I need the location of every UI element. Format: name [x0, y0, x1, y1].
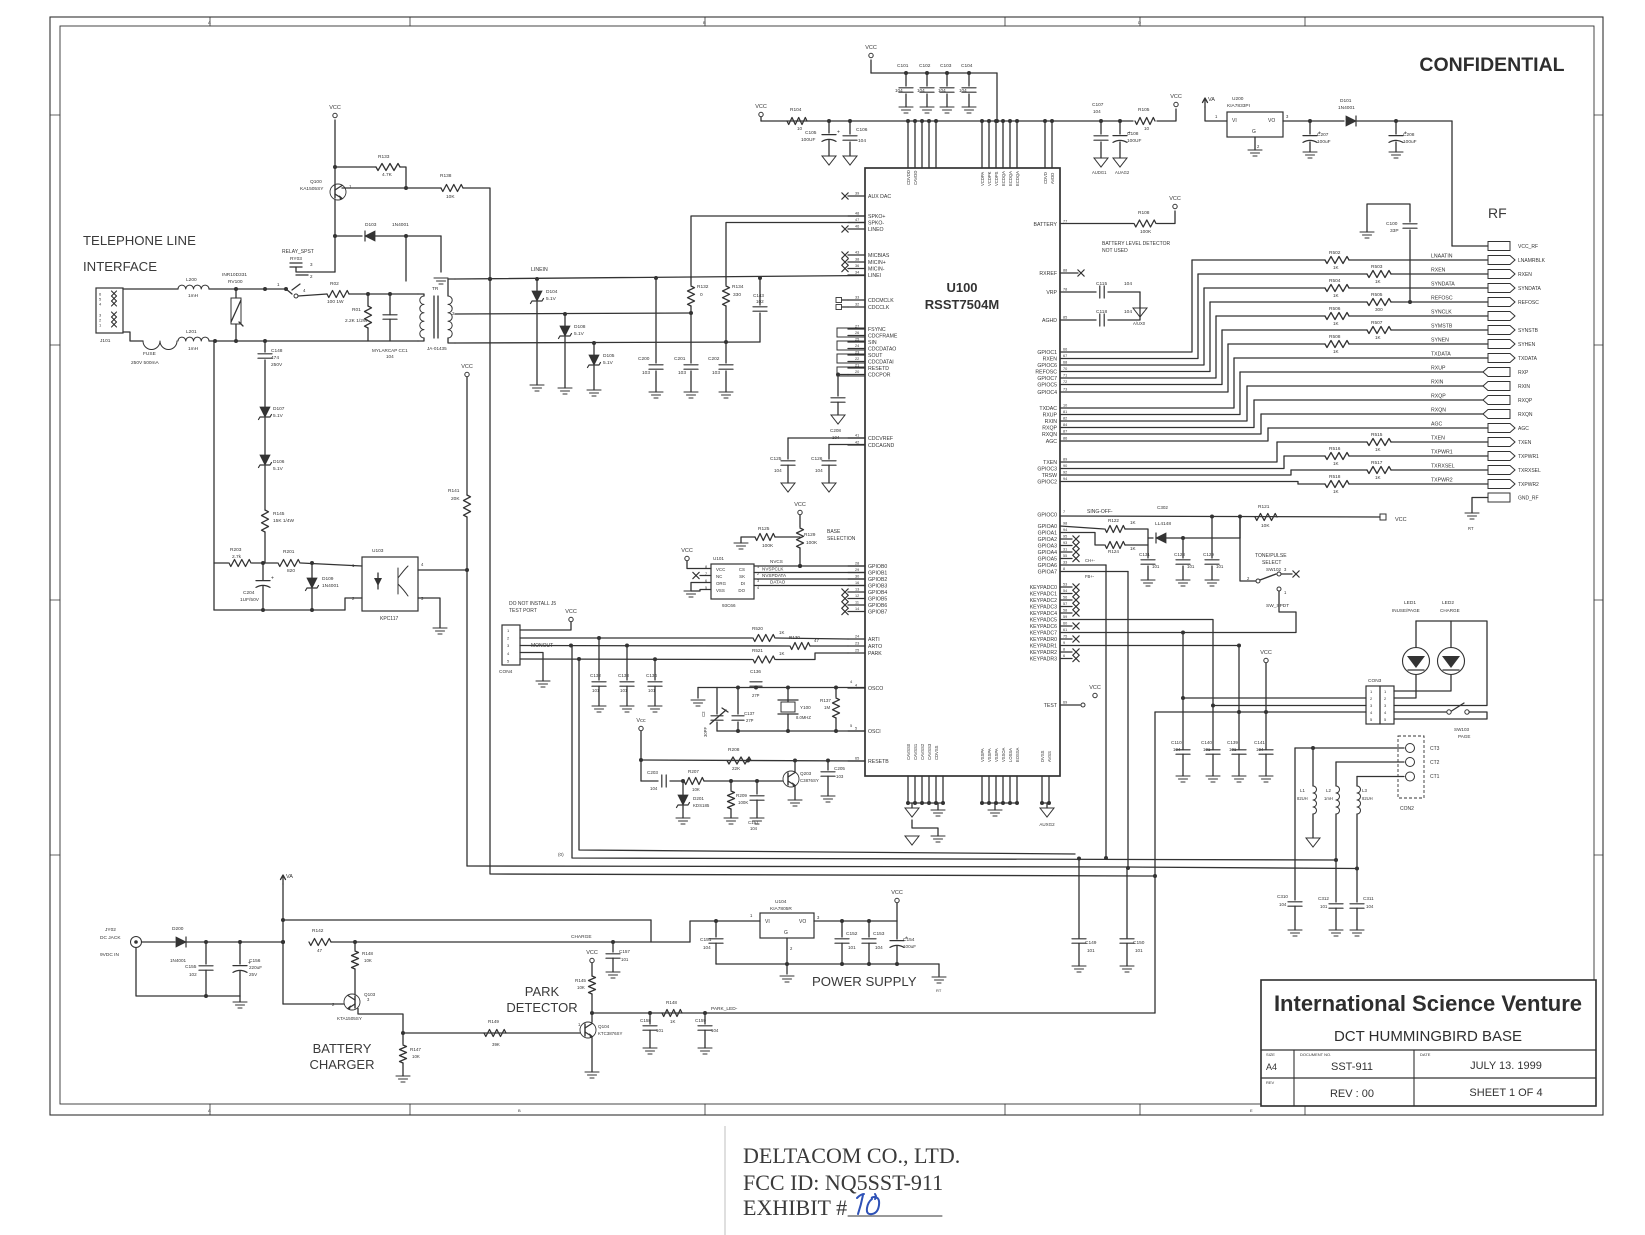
- wire C134 column: [654, 659, 656, 680]
- connector CON4 5 pin: [502, 625, 520, 665]
- wire SING-OFF- net GPIOC0: [1060, 516, 1380, 517]
- capacitor C208 104 left: [831, 397, 845, 399]
- wire IC pin to RF row SYNDATA: [1060, 288, 1204, 365]
- svg-text:U103: U103: [372, 548, 384, 554]
- svg-text:C311: C311: [1363, 896, 1374, 901]
- RF tag AGC: [1488, 424, 1515, 433]
- svg-text:R145: R145: [575, 978, 586, 983]
- svg-text:GPIOC6: GPIOC6: [1037, 363, 1057, 369]
- resistor R122 1K: [1105, 526, 1125, 533]
- junction C149 on bus A: [1078, 859, 1080, 939]
- svg-text:10K: 10K: [692, 787, 700, 792]
- junction C100 column on REFOSC row: [1408, 300, 1412, 304]
- wire IC pin to RF row TXPWR2: [1060, 482, 1298, 485]
- svg-text:KEYPADC2: KEYPADC2: [1030, 598, 1057, 604]
- optocoupler U103 KPC117: [362, 557, 418, 611]
- varistor RV100 INR10D331: [235, 289, 237, 298]
- svg-text:1N4001: 1N4001: [1338, 105, 1355, 111]
- svg-text:VCC: VCC: [1089, 685, 1101, 691]
- wire R105 to VCC right: [1157, 109, 1176, 121]
- ground hollow below C208 left: [831, 415, 845, 424]
- resistor R134 330: [725, 278, 727, 285]
- capacitor C200 103: [655, 278, 657, 363]
- capacitor C132 101: [592, 681, 606, 683]
- svg-text:R02: R02: [330, 281, 339, 287]
- svg-text:47: 47: [317, 948, 323, 953]
- svg-text:27P: 27P: [752, 693, 760, 698]
- wire CT1 row: [1357, 776, 1404, 778]
- svg-text:D101: D101: [1340, 98, 1352, 104]
- svg-text:15K 1/4W: 15K 1/4W: [273, 518, 295, 524]
- svg-text:SW_SPDT: SW_SPDT: [1266, 603, 1289, 609]
- svg-text:C129: C129: [1203, 552, 1214, 557]
- svg-text:RXREF: RXREF: [1039, 271, 1057, 277]
- svg-text:1K: 1K: [1333, 461, 1340, 466]
- svg-text:26: 26: [855, 331, 859, 335]
- svg-text:RXQP: RXQP: [1042, 426, 1057, 432]
- resistor R01 2.2K 1/2W: [367, 294, 369, 306]
- svg-text:101: 101: [1152, 564, 1160, 569]
- wire R125 left to ground: [741, 537, 755, 543]
- wire bus line C: [490, 279, 1155, 876]
- svg-text:C153: C153: [873, 931, 885, 937]
- svg-text:1mH: 1mH: [1324, 796, 1333, 801]
- ground hollow below C126: [822, 483, 836, 492]
- wire CT2 row: [1336, 761, 1404, 763]
- svg-text:SIN: SIN: [868, 340, 877, 346]
- svg-text:46: 46: [855, 225, 859, 229]
- svg-text:LINEI: LINEI: [868, 273, 881, 279]
- svg-text:R518: R518: [1329, 474, 1341, 480]
- svg-text:104: 104: [750, 826, 758, 831]
- svg-text:92: 92: [1063, 471, 1067, 475]
- svg-text:1mH: 1mH: [188, 293, 199, 299]
- svg-text:AUXG2: AUXG2: [1039, 822, 1055, 827]
- ground below C139: [1232, 775, 1246, 777]
- svg-text:1K: 1K: [1333, 293, 1340, 298]
- svg-text:R504: R504: [1329, 278, 1341, 284]
- svg-text:CAVSS2: CAVSS2: [920, 743, 925, 760]
- ground below GND_RF: [1465, 512, 1479, 514]
- wire KEYPADR3: [1060, 658, 1072, 660]
- resistor R521 1K: [753, 656, 775, 663]
- svg-text:D201: D201: [693, 796, 704, 801]
- svg-text:30: 30: [855, 575, 859, 579]
- svg-text:KIA7833PI: KIA7833PI: [1227, 103, 1250, 109]
- resistor R141 20K: [464, 495, 471, 517]
- svg-text:8.0MHZ: 8.0MHZ: [796, 715, 811, 720]
- svg-text:101: 101: [648, 688, 656, 693]
- terminal CT2: [1406, 758, 1415, 767]
- svg-text:1K: 1K: [1375, 279, 1382, 284]
- no-connect KEYPADR2: [1060, 651, 1072, 653]
- svg-text:CDCAGND: CDCAGND: [868, 443, 894, 449]
- svg-text:GPIOC0: GPIOC0: [1037, 513, 1057, 519]
- wire R521 to PARK pin: [776, 653, 848, 660]
- svg-text:43: 43: [855, 251, 859, 255]
- svg-text:FSYNC: FSYNC: [868, 327, 886, 333]
- svg-text:5.1V: 5.1V: [546, 296, 557, 302]
- ground below C311: [1350, 929, 1364, 931]
- svg-text:C157: C157: [619, 949, 630, 954]
- wire opto pin3 to ground: [418, 598, 440, 628]
- wire CON3 pin2 row left: [1183, 697, 1366, 699]
- ground below U104 rail: [786, 964, 788, 974]
- wire CDCAGND to C126: [829, 444, 865, 446]
- ground below C157b: [750, 817, 764, 819]
- svg-text:KTA1505SY: KTA1505SY: [337, 1016, 362, 1021]
- ground AUDG1 hollow below left group: [911, 803, 913, 808]
- capacitor C136 27P: [750, 681, 762, 683]
- title block outer box: [1261, 980, 1596, 1106]
- svg-text:58: 58: [1063, 609, 1067, 613]
- svg-text:CT1: CT1: [1430, 774, 1440, 780]
- svg-text:VO: VO: [1268, 118, 1275, 124]
- svg-text:International Science Venture: International Science Venture: [1274, 991, 1582, 1016]
- svg-text:SHEET 1 OF 4: SHEET 1 OF 4: [1469, 1087, 1542, 1099]
- capacitor C129 101: [1211, 517, 1213, 559]
- svg-text:TXRXSEL: TXRXSEL: [1431, 464, 1455, 470]
- resistor R129 100K: [797, 528, 804, 548]
- svg-text:R515: R515: [1371, 432, 1383, 438]
- wire R02 to transformer: [349, 293, 418, 295]
- svg-text:89: 89: [1063, 458, 1067, 462]
- zener diode D106 5.1V: [260, 455, 270, 465]
- svg-text:LED1: LED1: [1404, 600, 1416, 606]
- svg-text:93: 93: [1063, 541, 1067, 545]
- svg-text:20K: 20K: [451, 496, 460, 502]
- svg-text:KEYPADR1: KEYPADR1: [1030, 644, 1057, 650]
- RF tag LNAMRBLK: [1488, 256, 1515, 265]
- svg-text:C159: C159: [695, 1018, 706, 1023]
- svg-text:DETECTOR: DETECTOR: [506, 1000, 577, 1015]
- svg-text:R517: R517: [1371, 460, 1383, 466]
- svg-text:REFOSC: REFOSC: [1035, 370, 1057, 376]
- resistor R505 300: [1367, 299, 1391, 306]
- capacitor C154 100uF polar: [896, 921, 898, 939]
- RF tag RXQN: [1483, 410, 1510, 419]
- svg-text:MYLARCAP CC1: MYLARCAP CC1: [372, 348, 408, 353]
- svg-text:78: 78: [1063, 288, 1067, 292]
- svg-text:C152: C152: [846, 931, 858, 937]
- svg-text:101: 101: [621, 957, 629, 962]
- ground below C205: [821, 795, 835, 797]
- wire L2 down to bus A: [1335, 814, 1337, 902]
- svg-text:1K: 1K: [1130, 546, 1137, 551]
- svg-text:REV : 00: REV : 00: [1330, 1088, 1374, 1100]
- wire VCC column down to bus: [466, 517, 468, 570]
- svg-text:SING-OFF-: SING-OFF-: [1087, 509, 1113, 515]
- ground below C104: [962, 106, 976, 108]
- svg-text:R129: R129: [804, 532, 816, 538]
- wire VCC to R145: [591, 963, 593, 976]
- svg-text:CAVSS3: CAVSS3: [927, 743, 932, 760]
- svg-text:CS: CS: [739, 567, 745, 572]
- wire LED top rail to CON3 pin3 row: [1394, 621, 1487, 706]
- wire BATTERY pin to R108: [1060, 223, 1133, 225]
- crystal Y100 8.0MHZ: [787, 688, 789, 703]
- svg-text:SOUT: SOUT: [868, 353, 883, 359]
- svg-text:104: 104: [1173, 747, 1181, 752]
- wire CDCPOR column to C208: [838, 375, 848, 397]
- svg-text:BATTERY: BATTERY: [1034, 222, 1058, 228]
- resistor R105 10: [1135, 118, 1155, 125]
- wire relay to R02: [298, 294, 327, 296]
- wire charge row R142: [309, 939, 331, 946]
- svg-text:TONE/PULSE: TONE/PULSE: [1255, 553, 1287, 559]
- wire C203 to R207: [670, 780, 683, 782]
- svg-text:73: 73: [1063, 388, 1067, 392]
- svg-text:R142: R142: [312, 928, 324, 934]
- svg-text:104: 104: [895, 88, 903, 93]
- regulator U200 KIA7833PI: [1227, 112, 1283, 137]
- svg-text:820: 820: [287, 568, 295, 574]
- wire vertical CON3pin4 column to PARK_LED row: [1154, 712, 1156, 1013]
- capacitor C133 101: [620, 681, 634, 683]
- svg-text:SYNCLK: SYNCLK: [1431, 310, 1452, 316]
- junction C150 on bus B: [1126, 868, 1128, 938]
- svg-text:TXDATA: TXDATA: [1431, 352, 1451, 358]
- svg-text:1M: 1M: [824, 705, 830, 710]
- svg-text:NVSPDATA: NVSPDATA: [762, 573, 787, 578]
- svg-text:R148: R148: [666, 1000, 677, 1005]
- svg-text:R148: R148: [362, 951, 373, 956]
- svg-text:1K: 1K: [1375, 335, 1382, 340]
- svg-text:GPIOA7: GPIOA7: [1038, 570, 1057, 576]
- svg-text:85: 85: [1063, 316, 1067, 320]
- ground below C310: [1288, 929, 1302, 931]
- svg-text:Vcc: Vcc: [636, 718, 645, 724]
- wire diode to C128 node: [1166, 537, 1240, 539]
- svg-text:CAVDD: CAVDD: [913, 171, 918, 185]
- inductor L3 82UH: [1356, 777, 1358, 787]
- svg-text:C108: C108: [1127, 131, 1139, 137]
- ground below C100 left leg: [1360, 231, 1374, 233]
- ground hollow below C107 AUDG1: [1094, 158, 1108, 167]
- svg-text:RXIN: RXIN: [1045, 419, 1058, 425]
- svg-text:+: +: [271, 576, 274, 582]
- resistor R508 1K: [1325, 341, 1349, 348]
- wire LED1 top to rail: [1415, 621, 1417, 648]
- ground below R147: [396, 1075, 410, 1077]
- wire GPIOA1 row to R124: [1060, 533, 1104, 546]
- svg-text:VCC: VCC: [716, 567, 725, 572]
- capacitor C158 101: [649, 1013, 651, 1024]
- svg-text:25V: 25V: [249, 972, 258, 977]
- svg-text:ARTO: ARTO: [868, 644, 882, 650]
- svg-text:NVCS: NVCS: [770, 559, 783, 564]
- svg-text:R122: R122: [1108, 518, 1119, 523]
- svg-text:R507: R507: [1371, 320, 1383, 326]
- resistor R145 15K 1/4W: [262, 510, 269, 532]
- svg-text:DO: DO: [738, 588, 745, 593]
- svg-text:C202: C202: [708, 356, 720, 362]
- resistor R203 2.7k: [214, 562, 228, 564]
- connector CON2 dashed outline: [1398, 736, 1424, 798]
- svg-text:RXEN: RXEN: [1518, 272, 1532, 278]
- RF tag TXEN: [1488, 438, 1515, 447]
- svg-text:C118: C118: [1096, 309, 1107, 315]
- wire Q103 base from VA column: [283, 1003, 344, 1005]
- svg-text:31: 31: [1063, 548, 1067, 552]
- wire L200 to relay: [209, 288, 286, 290]
- svg-text:C115: C115: [1096, 281, 1107, 287]
- svg-text:U200: U200: [1232, 96, 1244, 102]
- svg-text:BATTERY LEVEL DETECTOR: BATTERY LEVEL DETECTOR: [1102, 241, 1170, 247]
- capacitor C100 33P loop: [1367, 204, 1410, 232]
- svg-text:47: 47: [855, 218, 859, 222]
- svg-text:R130: R130: [789, 635, 800, 640]
- svg-text:C310: C310: [1277, 894, 1288, 899]
- wire CDCVREF to C125: [788, 437, 865, 439]
- svg-text:LL4148: LL4148: [1155, 521, 1171, 527]
- svg-text:VCC: VCC: [755, 104, 767, 110]
- svg-text:101: 101: [620, 688, 628, 693]
- wire left column from J101 bottom: [213, 341, 215, 610]
- wire bus line A: [572, 646, 1336, 860]
- capacitor C202 103: [725, 342, 727, 363]
- wire CHARGE to U104 input: [690, 921, 716, 942]
- svg-text:RXEN: RXEN: [1043, 357, 1058, 363]
- wire CON4 pin3 row to R130: [520, 645, 789, 648]
- svg-text:C137: C137: [744, 711, 755, 716]
- svg-text:1K: 1K: [1333, 321, 1340, 326]
- U100 top power pins CDVDD CAVDD: [907, 121, 909, 168]
- svg-text:AVSS: AVSS: [1047, 751, 1052, 762]
- svg-text:GPIOA1: GPIOA1: [1038, 531, 1057, 537]
- resistor R02 100 1W: [327, 291, 349, 298]
- connector J101: [96, 288, 123, 333]
- svg-text:101: 101: [1135, 948, 1143, 953]
- svg-text:MICBIAS: MICBIAS: [868, 253, 890, 259]
- svg-text:100UF: 100UF: [801, 137, 815, 143]
- svg-text:SPKO-: SPKO-: [868, 221, 884, 227]
- svg-text:NOT USED: NOT USED: [1102, 248, 1128, 254]
- wire PS rail to ground right: [938, 964, 940, 976]
- wire Q203 emitter to ground: [794, 786, 796, 801]
- svg-text:CDVD: CDVD: [1043, 172, 1048, 184]
- wire CON4 pin4 to ground: [520, 653, 543, 682]
- wire OSCI row: [717, 730, 865, 732]
- svg-text:C139: C139: [1227, 740, 1238, 745]
- svg-text:LINEIN: LINEIN: [531, 267, 548, 273]
- wire Q104 emitter to ground: [591, 1037, 593, 1073]
- svg-text:AUX DAC: AUX DAC: [868, 194, 891, 200]
- capacitor C104 104: [968, 73, 970, 86]
- ground below Q104: [585, 1071, 599, 1073]
- footer paper edge faint line: [724, 1126, 726, 1235]
- wire VCC distribution top: [871, 72, 997, 74]
- svg-text:104: 104: [815, 468, 823, 473]
- ground below C312: [1329, 929, 1343, 931]
- wire PS input from CHARGE: [716, 920, 760, 922]
- svg-text:36: 36: [855, 264, 859, 268]
- svg-text:C207: C207: [1317, 132, 1329, 138]
- resistor R504 1K: [1325, 285, 1349, 292]
- RF tag SYNCLK blank: [1488, 312, 1515, 321]
- U100 left pin stubs and labels: [848, 195, 865, 197]
- wire U104 ground pin: [786, 938, 788, 964]
- wire IC pin to RF row TXEN: [1060, 442, 1277, 462]
- svg-text:KEYPADC7: KEYPADC7: [1030, 631, 1057, 637]
- svg-text:101: 101: [1187, 564, 1195, 569]
- capacitor C105 100UF polar: [828, 121, 830, 133]
- wire C139 column: [1238, 646, 1240, 749]
- svg-text:SYNSTB: SYNSTB: [1518, 328, 1539, 334]
- svg-text:C156: C156: [249, 958, 261, 964]
- svg-text:AGC: AGC: [1431, 422, 1442, 428]
- svg-text:GPIOC4: GPIOC4: [1037, 390, 1057, 396]
- no-connect KEYPADC6: [1060, 625, 1072, 627]
- svg-text:VCC: VCC: [891, 890, 903, 896]
- wire L201 to transformer bottom: [209, 340, 418, 342]
- svg-text:D104: D104: [546, 289, 558, 295]
- svg-text:24: 24: [855, 635, 859, 639]
- wire C140 column: [1212, 700, 1214, 748]
- svg-text:27P: 27P: [746, 718, 754, 723]
- ground below C150: [1120, 965, 1134, 967]
- ground below C202: [719, 391, 733, 393]
- svg-text:CDCDATAO: CDCDATAO: [868, 347, 896, 353]
- wire PS bottom rail: [716, 963, 939, 965]
- svg-text:R145: R145: [273, 511, 285, 517]
- svg-text:KTC3876SY: KTC3876SY: [598, 1031, 622, 1036]
- svg-text:R147: R147: [410, 1047, 421, 1052]
- title block divider lines: [1261, 1049, 1596, 1051]
- svg-text:69: 69: [1063, 701, 1067, 705]
- resistor R209 100K: [730, 781, 732, 790]
- svg-text:Q103: Q103: [364, 992, 376, 997]
- svg-text:GPIOC5: GPIOC5: [1037, 383, 1057, 389]
- svg-text:CON4: CON4: [499, 669, 513, 675]
- wire U101 ORG pin to ground: [691, 583, 711, 592]
- svg-text:1K: 1K: [670, 1019, 675, 1024]
- svg-text:20: 20: [855, 370, 859, 374]
- svg-text:474: 474: [271, 355, 279, 361]
- wire CON3 pin4 row left: [1155, 711, 1366, 713]
- svg-text:R203: R203: [230, 547, 242, 553]
- wire J101 pin top to L200: [123, 288, 178, 290]
- resistor R201 820: [278, 560, 300, 567]
- ground below CON4: [536, 680, 550, 682]
- ground left of crystal: [697, 688, 699, 699]
- svg-text:1N4001: 1N4001: [392, 222, 409, 228]
- svg-text:1mH: 1mH: [188, 346, 199, 352]
- resistor R147 10K vertical: [402, 1033, 404, 1044]
- svg-text:100K: 100K: [806, 540, 818, 546]
- VCC tag right of R121: [1380, 514, 1386, 520]
- RF tag TXPWR1: [1488, 452, 1515, 461]
- svg-text:C100: C100: [1386, 221, 1398, 227]
- ground below C110: [1176, 775, 1190, 777]
- svg-text:CT3: CT3: [1430, 746, 1440, 752]
- capacitor C118 104: [1099, 314, 1101, 326]
- wire IC pin to RF row RXQN: [1060, 414, 1261, 434]
- svg-text:KIA7805R: KIA7805R: [770, 906, 792, 912]
- svg-text:101: 101: [1216, 564, 1224, 569]
- capacitor C149 101: [1072, 938, 1086, 940]
- no-connect U101 NC pin: [700, 575, 711, 577]
- svg-text:101: 101: [656, 1028, 664, 1033]
- svg-text:R133: R133: [378, 154, 390, 160]
- svg-text:53: 53: [1063, 583, 1067, 587]
- wire transformer secondary mid: [455, 313, 691, 314]
- svg-text:16: 16: [855, 581, 859, 585]
- svg-text:59: 59: [1063, 615, 1067, 619]
- svg-text:E: E: [1250, 1108, 1253, 1113]
- svg-text:KEYPADC6: KEYPADC6: [1030, 624, 1057, 630]
- svg-text:SYNDATA: SYNDATA: [1518, 286, 1542, 292]
